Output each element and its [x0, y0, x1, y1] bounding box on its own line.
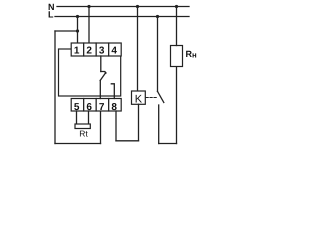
terminal 5 — [71, 99, 84, 112]
junction on L rail to terminal 1 — [76, 15, 79, 18]
svg-text:6: 6 — [86, 102, 92, 113]
resistor Rн heater body — [171, 46, 183, 67]
svg-text:L: L — [48, 10, 54, 20]
wire contact bottom down — [158, 105, 160, 144]
svg-text:3: 3 — [99, 46, 105, 57]
wire U bottom contact to heater — [159, 143, 177, 145]
wire terminal 8 down — [115, 111, 117, 141]
terminal 8 — [109, 99, 122, 112]
wire internal from terminal 3 — [100, 56, 102, 72]
wire L to contact K — [157, 17, 159, 92]
wire internal to terminal 7 — [99, 81, 101, 99]
wire N to terminal 2 — [88, 7, 90, 44]
wire terminal 6 to sensor — [88, 111, 90, 124]
wire L rail — [55, 16, 189, 18]
wire N rail — [57, 6, 189, 8]
terminal 6 — [84, 99, 97, 112]
terminal 7 — [96, 99, 109, 112]
svg-text:K: K — [135, 93, 143, 105]
svg-text:4: 4 — [111, 46, 117, 57]
wire K coil bottom — [138, 104, 140, 141]
terminal 4 — [109, 43, 122, 56]
svg-text:Rt: Rt — [79, 128, 88, 138]
resistor Rt sensor body — [75, 124, 90, 129]
wire terminal 5 to sensor — [76, 111, 78, 124]
junction on N rail to heater Rн — [175, 5, 178, 8]
internal contact blade — [100, 73, 106, 81]
junction on N rail to contactor coil K — [136, 5, 139, 8]
terminal 2 — [84, 43, 97, 56]
contactor coil K box — [132, 91, 146, 104]
junction dot branch to loop — [76, 29, 79, 32]
svg-text:1: 1 — [74, 46, 80, 57]
internal contact fixed tick — [101, 72, 106, 74]
svg-text:7: 7 — [99, 102, 105, 113]
svg-text:2: 2 — [86, 46, 92, 57]
wire loop up to terminal 7 — [100, 111, 102, 144]
wire left loop bottom — [55, 143, 101, 145]
wire U bottom terminal 8 to K — [116, 140, 139, 142]
wire L to terminal 1 — [77, 17, 79, 44]
wire left loop vertical — [54, 31, 56, 144]
contact K blade — [158, 91, 164, 102]
terminal 3 — [96, 43, 109, 56]
terminal 1 — [71, 43, 84, 56]
dashed mechanical link K to contact — [146, 97, 158, 99]
internal contact NO hook — [111, 84, 114, 99]
junction on L rail to contact of K — [156, 15, 159, 18]
wire N to K coil — [137, 7, 139, 92]
svg-text:Rн: Rн — [186, 49, 198, 59]
wire branch left from junction — [55, 30, 78, 32]
wire heater bottom up — [176, 67, 178, 144]
device body box — [59, 49, 121, 96]
wire heater top to N — [176, 7, 178, 46]
junction on N rail to terminal 2 — [87, 5, 90, 8]
